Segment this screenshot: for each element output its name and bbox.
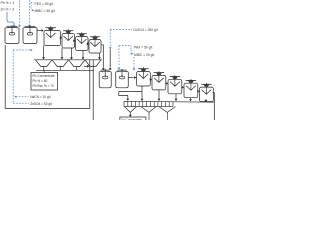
svg-text:Zn % = 3: Zn % = 3: [1, 8, 15, 12]
svg-text:MIBC = 20 g/t: MIBC = 20 g/t: [134, 53, 154, 57]
svg-text:CuSO4 = 250 g/t: CuSO4 = 250 g/t: [133, 28, 158, 32]
svg-text:PAX = 50 g/t: PAX = 50 g/t: [134, 46, 152, 50]
svg-text:PEX = 50 g/t: PEX = 50 g/t: [35, 2, 54, 6]
svg-text:MIBC = 50 g/t: MIBC = 50 g/t: [35, 9, 55, 13]
svg-text:ZnSO4 = 50 g/t: ZnSO4 = 50 g/t: [30, 102, 52, 106]
svg-text:Pb % = 60: Pb % = 60: [33, 79, 48, 83]
svg-text:Zn Concentrate: Zn Concentrate: [121, 117, 142, 120]
svg-text:Pb Rec % = 70: Pb Rec % = 70: [33, 84, 55, 88]
svg-text:Pb Concentrate: Pb Concentrate: [33, 74, 55, 78]
svg-text:Pb % = 1: Pb % = 1: [1, 1, 15, 5]
svg-text:NaCN = 10 g/t: NaCN = 10 g/t: [30, 95, 50, 99]
